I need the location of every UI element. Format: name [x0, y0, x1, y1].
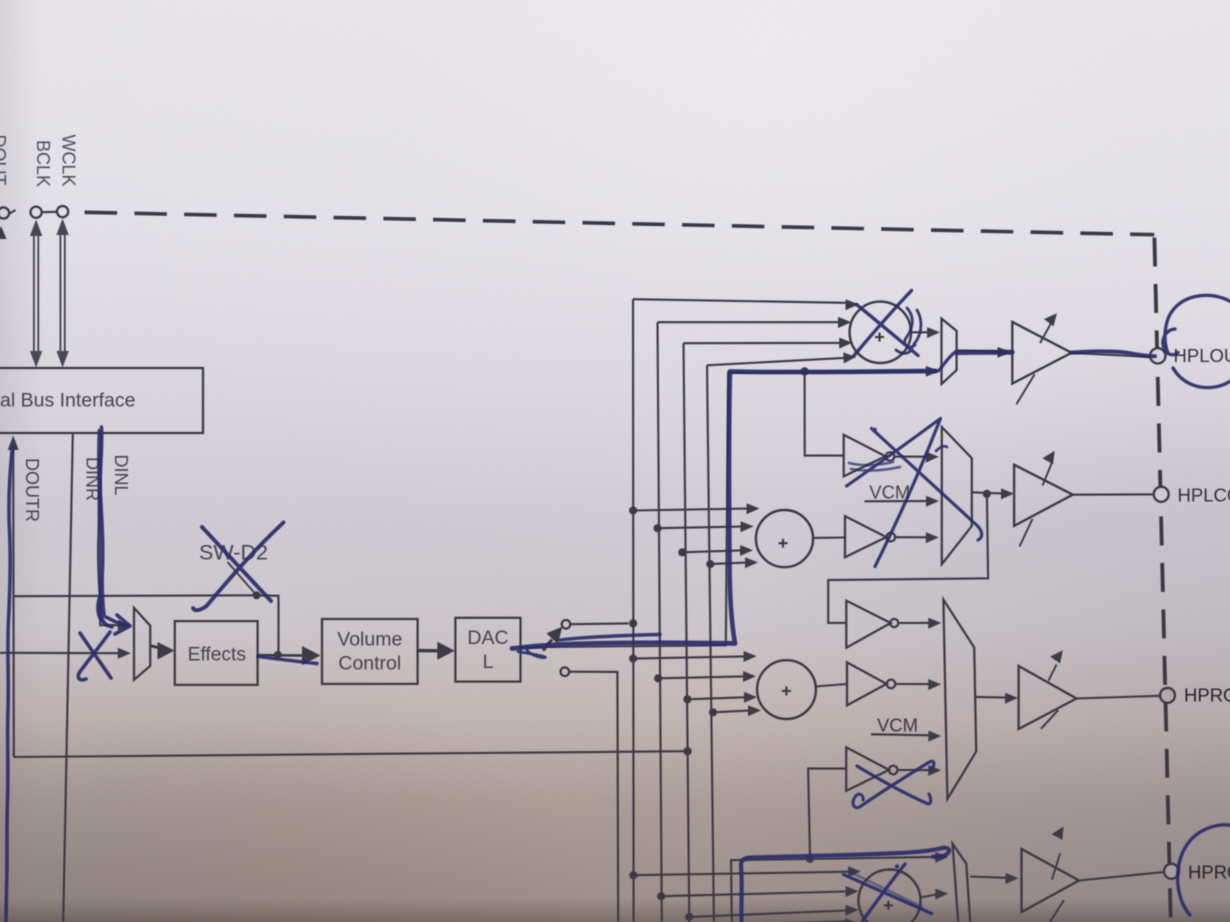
pin label DINL: [111, 454, 131, 495]
node bus1 upper contact junction: [629, 619, 637, 627]
pin BCLK: [30, 207, 41, 218]
bus line 1 (DAC L1): [633, 299, 859, 922]
mux M2 (HPLCOM): [942, 427, 972, 564]
block Volume Control: [322, 619, 418, 684]
wire SW-D2 row: [14, 594, 257, 597]
inverter INV1 (HPLCOM upper): [844, 435, 939, 477]
wire SUM2 to inverter INV2: [813, 536, 845, 539]
pin label HPROUT: [1184, 685, 1230, 706]
pin label HPLOUT: [1174, 345, 1230, 366]
node bus3 tap HPRCOM mixer: [685, 905, 858, 921]
svg-text:DAC: DAC: [467, 627, 508, 649]
op-amp A1 (HPLOUT driver): [1012, 313, 1071, 404]
summing mixer SUM4 (HPRCOM): [859, 870, 921, 922]
pin DOUT (partial, left edge): [0, 207, 16, 218]
wire amp A1 to pin HPLOUT: [1072, 353, 1151, 357]
chip boundary dashed top edge: [85, 212, 1155, 234]
pin label DINR: [83, 457, 103, 501]
bus line 4: [707, 352, 856, 922]
node bus4 tap HPLCOM mixer: [706, 557, 758, 568]
pin HPRCOM: [1164, 864, 1179, 879]
pin label HPLCOM: [1178, 485, 1230, 506]
blue pen X over SW-D2: [193, 523, 284, 611]
pin label HPRCOM: [1188, 862, 1230, 883]
svg-text:HPROUT: HPROUT: [1184, 685, 1230, 706]
mux M1 (HPLOUT): [942, 319, 957, 384]
svg-text:Control: Control: [338, 653, 401, 675]
blue pen X over mux ML input: [78, 632, 111, 680]
node bus1 tap HPLCOM mixer: [629, 503, 760, 514]
blue pen trace Effects to Volume: [258, 657, 317, 664]
pin label DOUT (clipped): [0, 135, 9, 186]
op-amp A2 (HPLCOM driver): [1014, 451, 1073, 547]
switch SW-D1 lower contact: [561, 667, 570, 676]
mux ML (input selector): [134, 608, 150, 680]
blue pen circle around pin HPRCOM: [1178, 825, 1230, 915]
wire DINR: [63, 433, 73, 922]
wire SW-D2 to effects output node: [257, 595, 279, 655]
label SW-D2: [199, 541, 268, 565]
pin HPLCOM: [1154, 487, 1169, 502]
long wire DOUTR row to bus3: [14, 751, 688, 757]
wire amp A2 to pin HPLCOM: [1073, 493, 1154, 495]
wire mux M4 to amp A4: [970, 873, 1018, 884]
wire lower contact down: [569, 672, 618, 922]
wire Volume Control to DAC L: [418, 642, 455, 660]
summing mixer SUM2 (HPLCOM): [756, 510, 813, 567]
wire upper contact to bus1: [571, 622, 629, 625]
wire SUM4 to mux M4: [920, 889, 948, 900]
wire SUM3 to inverter INVB: [816, 684, 848, 687]
inverter INVC (VCM, crossed out): [846, 747, 941, 791]
block DAC L: [455, 618, 520, 682]
inverter INVA (HPROUT upper): [846, 601, 941, 648]
wire amp A4 to pin HPRCOM: [1079, 872, 1164, 881]
inverter INVB (HPROUT lower): [847, 662, 941, 705]
inverter INV2 (HPLCOM lower): [845, 516, 939, 557]
switch SW-D1 upper contact: [562, 620, 571, 629]
wire WCLK to bus interface (bidirectional double line): [56, 219, 68, 368]
blue pen scribble right of SUM1: [896, 308, 921, 353]
node bus3 tap HPROUT mixer: [683, 692, 757, 704]
wire mux ML to Effects: [150, 642, 174, 660]
op-amp A4 (HPRCOM driver): [1022, 827, 1080, 922]
node bus2 tap HPROUT mixer: [654, 671, 756, 682]
node mux M2 output branch: [983, 490, 991, 498]
svg-text:L: L: [483, 651, 494, 673]
pin label BCLK: [33, 140, 53, 187]
node bus1 tap HPRCOM mixer: [629, 866, 861, 879]
net VCM (HPLCOM): [865, 482, 940, 507]
blue pen circle around pin HPLOUT: [1163, 295, 1230, 387]
blue pen left margin line: [6, 447, 13, 922]
sum1 input arrows 2-4: [838, 317, 851, 328]
block Digital Bus Interface: [0, 368, 203, 433]
wire DOUTR up-arrow into bus interface: [8, 436, 19, 758]
wire from left edge into input mux: [0, 648, 131, 659]
summing mixer SUM3 (HPROUT): [757, 660, 816, 719]
mux M3 (HPROUT): [943, 600, 976, 799]
node bus2 tap HPRCOM mixer: [657, 886, 858, 900]
pin HPLOUT: [1150, 348, 1165, 363]
op-amp A3 (HPROUT driver): [1019, 650, 1077, 729]
blue pen X over INV1 and mux M2: [847, 419, 982, 567]
blue pen X over inverter INVC: [853, 761, 934, 807]
blue pen trace bottom feed: [741, 848, 949, 922]
svg-text:DINL: DINL: [111, 454, 131, 495]
blue pen trace amp A1 to pin HPLOUT: [1072, 351, 1155, 356]
blue pen X over SUM1: [854, 291, 918, 356]
svg-text:DOUT: DOUT: [0, 135, 9, 186]
node bus3 tap HPLCOM mixer: [678, 545, 753, 556]
wire amp A3 to pin HPROUT: [1077, 696, 1160, 699]
svg-text:HPLCOM: HPLCOM: [1178, 485, 1230, 506]
net VCM (HPROUT): [871, 715, 941, 742]
bus line 3: [684, 338, 853, 922]
svg-text:BCLK: BCLK: [33, 140, 53, 187]
blue pen trace DAC output: [512, 635, 735, 658]
wire DAC direct path to HPLOUT mux: [548, 366, 939, 647]
wire mux M2 to amp A2: [972, 488, 1014, 499]
blue pen X over SUM4: [844, 864, 932, 921]
svg-text:Digital Bus Interface: Digital Bus Interface: [0, 390, 136, 412]
wire mux M2 output down and to inverter INVA: [828, 494, 988, 623]
pin label WCLK: [58, 134, 78, 186]
svg-text:VCM: VCM: [869, 482, 910, 503]
mux M4 (HPRCOM): [953, 844, 971, 922]
wire SUM1 to mux M1: [911, 327, 940, 338]
wire mux M1 to amp A1: [957, 347, 1011, 358]
pin WCLK: [57, 206, 68, 217]
wire between BCLK and WCLK pins: [42, 211, 57, 213]
wire mux M3 to amp A3: [976, 693, 1019, 704]
blue pen trace DINL: [98, 427, 130, 634]
wire branch down to HPLCOM inverter INV1: [805, 371, 844, 455]
node bus4 tap HPROUT mixer: [709, 705, 761, 716]
arrowhead up into pin DOUT: [0, 226, 7, 239]
svg-text:WCLK: WCLK: [58, 134, 78, 186]
wire bottom feed to mux M4: [731, 852, 948, 922]
svg-text:HPRCOM: HPRCOM: [1188, 862, 1230, 883]
wire inverter INVC input branch: [808, 768, 846, 855]
node at effects output: [274, 651, 282, 659]
node branch to inverter INVC: [806, 855, 814, 863]
switch SW-D1 lever arrow: [543, 627, 562, 651]
svg-text:HPLOUT: HPLOUT: [1174, 345, 1230, 366]
wire Effects to Volume Control: [258, 646, 321, 665]
svg-text:Volume: Volume: [337, 629, 402, 651]
switch SW-D2: [228, 562, 261, 599]
wire DINL to input mux: [100, 433, 131, 631]
chip boundary dashed right edge: [1154, 238, 1170, 922]
node branch to HPLCOM inverter: [801, 367, 809, 375]
svg-text:DOUTR: DOUTR: [22, 458, 42, 522]
node bus1 tap HPROUT mixer: [629, 651, 757, 663]
wire DAC L output: [521, 646, 547, 649]
pin HPROUT: [1160, 688, 1175, 703]
svg-text:VCM: VCM: [877, 715, 918, 736]
wire BCLK to bus interface (bidirectional double line): [30, 220, 42, 368]
bus line 2: [658, 317, 852, 922]
svg-text:Effects: Effects: [188, 645, 246, 666]
blue pen trace riser to HPLOUT mux: [729, 352, 1012, 643]
block Effects: [175, 621, 258, 685]
node on bus3 at long wire: [683, 747, 691, 755]
wire bus4 tap HPRCOM (clipped at bottom): [714, 918, 858, 922]
summing mixer SUM1 (HPLOUT): [850, 302, 911, 363]
pin label DOUTR: [22, 458, 42, 522]
node bus2 tap HPLCOM mixer: [654, 521, 754, 532]
